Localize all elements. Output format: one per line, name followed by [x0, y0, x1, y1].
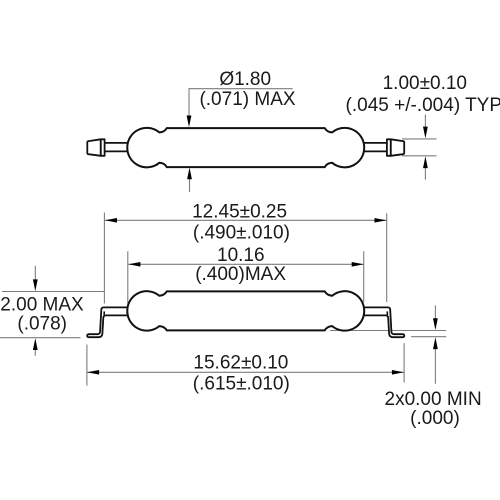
svg-text:(.615±.010): (.615±.010)	[193, 374, 290, 395]
svg-text:15.62±0.10: 15.62±0.10	[193, 352, 288, 373]
svg-text:(.490±.010): (.490±.010)	[193, 222, 290, 243]
svg-text:1.00±0.10: 1.00±0.10	[383, 73, 467, 94]
svg-text:(.400)MAX: (.400)MAX	[195, 264, 286, 285]
svg-text:(.000): (.000)	[410, 408, 460, 429]
svg-text:Ø1.80: Ø1.80	[219, 69, 271, 90]
svg-text:10.16: 10.16	[217, 245, 265, 266]
svg-text:(.078): (.078)	[17, 313, 67, 334]
svg-text:(.045 +/-.004) TYP: (.045 +/-.004) TYP	[346, 95, 500, 116]
svg-text:(.071) MAX: (.071) MAX	[199, 89, 295, 110]
svg-text:12.45±0.25: 12.45±0.25	[192, 201, 287, 222]
